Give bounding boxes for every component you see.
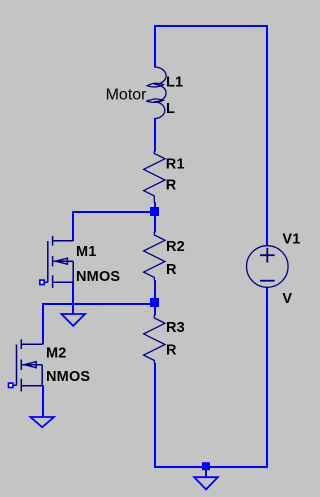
svg-text:V: V <box>282 291 292 307</box>
svg-text:R: R <box>166 343 177 359</box>
svg-text:Motor: Motor <box>106 87 148 104</box>
svg-text:R: R <box>166 262 177 278</box>
svg-text:R: R <box>166 178 177 194</box>
svg-text:M2: M2 <box>46 345 67 361</box>
svg-text:NMOS: NMOS <box>76 269 120 285</box>
svg-text:V1: V1 <box>282 232 300 248</box>
svg-text:L: L <box>166 101 175 117</box>
svg-text:R2: R2 <box>166 239 185 255</box>
svg-text:R1: R1 <box>166 157 185 173</box>
svg-text:R3: R3 <box>166 320 185 336</box>
svg-text:L1: L1 <box>166 75 183 91</box>
svg-text:M1: M1 <box>76 244 97 260</box>
svg-text:NMOS: NMOS <box>46 369 90 385</box>
